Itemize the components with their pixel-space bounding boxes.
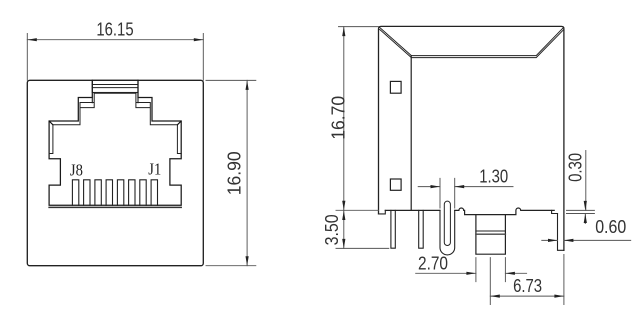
dimension 0.30 arrow down <box>584 201 587 211</box>
right shield leg <box>558 214 564 251</box>
dimension 0.30 extension lines <box>567 210 595 213</box>
contact pin 7 <box>140 180 146 206</box>
contact pin 8 <box>151 180 157 206</box>
latch slot inner line 1 <box>92 84 138 86</box>
ear corner chamfer left <box>49 121 53 125</box>
solder post block <box>476 215 506 255</box>
dimension 0.30 line lower <box>584 214 586 224</box>
dimension 1.30 line left <box>418 186 440 188</box>
svg-text:J8: J8 <box>70 160 83 179</box>
dimension 0.60 line left <box>542 239 558 241</box>
dimension 16.70 extension top <box>339 26 379 28</box>
svg-text:16.15: 16.15 <box>96 19 133 39</box>
latch slot side overshoot left <box>91 98 93 103</box>
opening bottom second line <box>49 206 181 208</box>
opening profile inner right <box>136 93 181 153</box>
solder tail slot inner <box>444 201 450 245</box>
dimension 0.60 arrow right <box>564 239 574 242</box>
dimension 2.70 extension lines <box>476 258 506 282</box>
dimension 2.70 line left <box>416 272 476 274</box>
dimension 1.30 arrow left <box>431 185 441 188</box>
latch slot side overshoot right <box>137 98 139 103</box>
bottom-right notch <box>552 210 558 213</box>
opening profile outer <box>49 80 181 205</box>
latch slot inner line 2 <box>92 87 138 89</box>
jack housing outline <box>27 80 203 265</box>
contact pin 6 <box>129 180 135 206</box>
dimension 16.15 extension lines <box>27 34 203 81</box>
bottom edge left segment <box>385 209 440 211</box>
dimension 1.30 line right <box>455 186 513 188</box>
solder tail slot outer <box>440 210 455 255</box>
roof outer edge <box>379 27 563 55</box>
block inner line 2 <box>476 233 506 235</box>
latch slot inner bottom line <box>94 92 136 94</box>
roof inner edge <box>380 29 564 57</box>
dimension 0.30 arrow up <box>584 214 587 224</box>
dimension 6.73 arrow right <box>554 295 564 298</box>
dimension 6.73 extension lines <box>490 255 564 305</box>
dimension 2.70 line right <box>505 272 526 274</box>
dimension 6.73 arrow left <box>490 295 500 298</box>
dimension 1.30 extension lines <box>440 178 455 208</box>
svg-text:0.60: 0.60 <box>595 217 626 237</box>
contact pin 3 <box>95 180 101 206</box>
svg-text:J1: J1 <box>148 159 161 178</box>
dimension 16.15 line <box>27 39 203 41</box>
contact pin 4 <box>106 180 112 206</box>
dimension 3.50 arrow bottom <box>342 239 345 249</box>
dimension 16.90 line <box>246 80 248 265</box>
dimension 16.15 arrow left <box>27 38 37 41</box>
dimension 6.73 line <box>490 295 564 297</box>
svg-text:1.30: 1.30 <box>479 167 508 187</box>
shield hole upper <box>390 81 401 93</box>
svg-text:2.70: 2.70 <box>418 254 448 274</box>
leg 2 <box>419 210 424 248</box>
dimension 0.30 line upper <box>585 151 587 211</box>
contact pin 2 <box>84 180 90 206</box>
contact pin 1 <box>72 180 78 206</box>
dimension 16.90 extension lines <box>206 80 256 265</box>
dimension 0.60 line right <box>564 239 631 241</box>
dimension 0.60 arrow left <box>548 239 558 242</box>
dimension 16.90 arrow bottom <box>246 256 249 266</box>
dimension 16.15 arrow right <box>194 38 204 41</box>
dimension 16.90 arrow top <box>246 80 249 90</box>
dimension 16.70 line <box>343 27 345 211</box>
svg-text:3.50: 3.50 <box>322 214 342 245</box>
svg-text:16.70: 16.70 <box>329 96 349 140</box>
svg-text:16.90: 16.90 <box>225 151 245 195</box>
svg-text:0.30: 0.30 <box>566 153 586 182</box>
dimension 16.70 arrow top <box>342 27 345 36</box>
dimension 2.70 arrow right <box>505 272 515 275</box>
block inner line 1 <box>476 230 506 232</box>
shield hole lower <box>390 179 401 190</box>
contact pin 5 <box>117 180 123 206</box>
bottom edge with left locating bump and ledge <box>455 208 555 215</box>
ear corner chamfer right <box>177 121 181 125</box>
dimension 3.50 line <box>343 210 345 248</box>
dimension 3.50 arrow top <box>342 211 345 221</box>
dimension 16.70 / 3.50 shared extension <box>336 209 379 211</box>
svg-text:6.73: 6.73 <box>513 276 542 296</box>
bottom-left notch <box>379 210 386 214</box>
leg 1 <box>391 210 395 248</box>
front face edge <box>410 56 412 211</box>
body outline <box>379 26 564 250</box>
dimension 3.50 extension bottom <box>336 247 389 249</box>
dimension 2.70 arrow left <box>466 272 476 275</box>
latch slot tab <box>92 80 138 92</box>
dimension 16.70 arrow bottom <box>342 201 345 211</box>
opening profile inner left <box>49 93 94 153</box>
dimension 1.30 arrow right <box>455 185 465 188</box>
